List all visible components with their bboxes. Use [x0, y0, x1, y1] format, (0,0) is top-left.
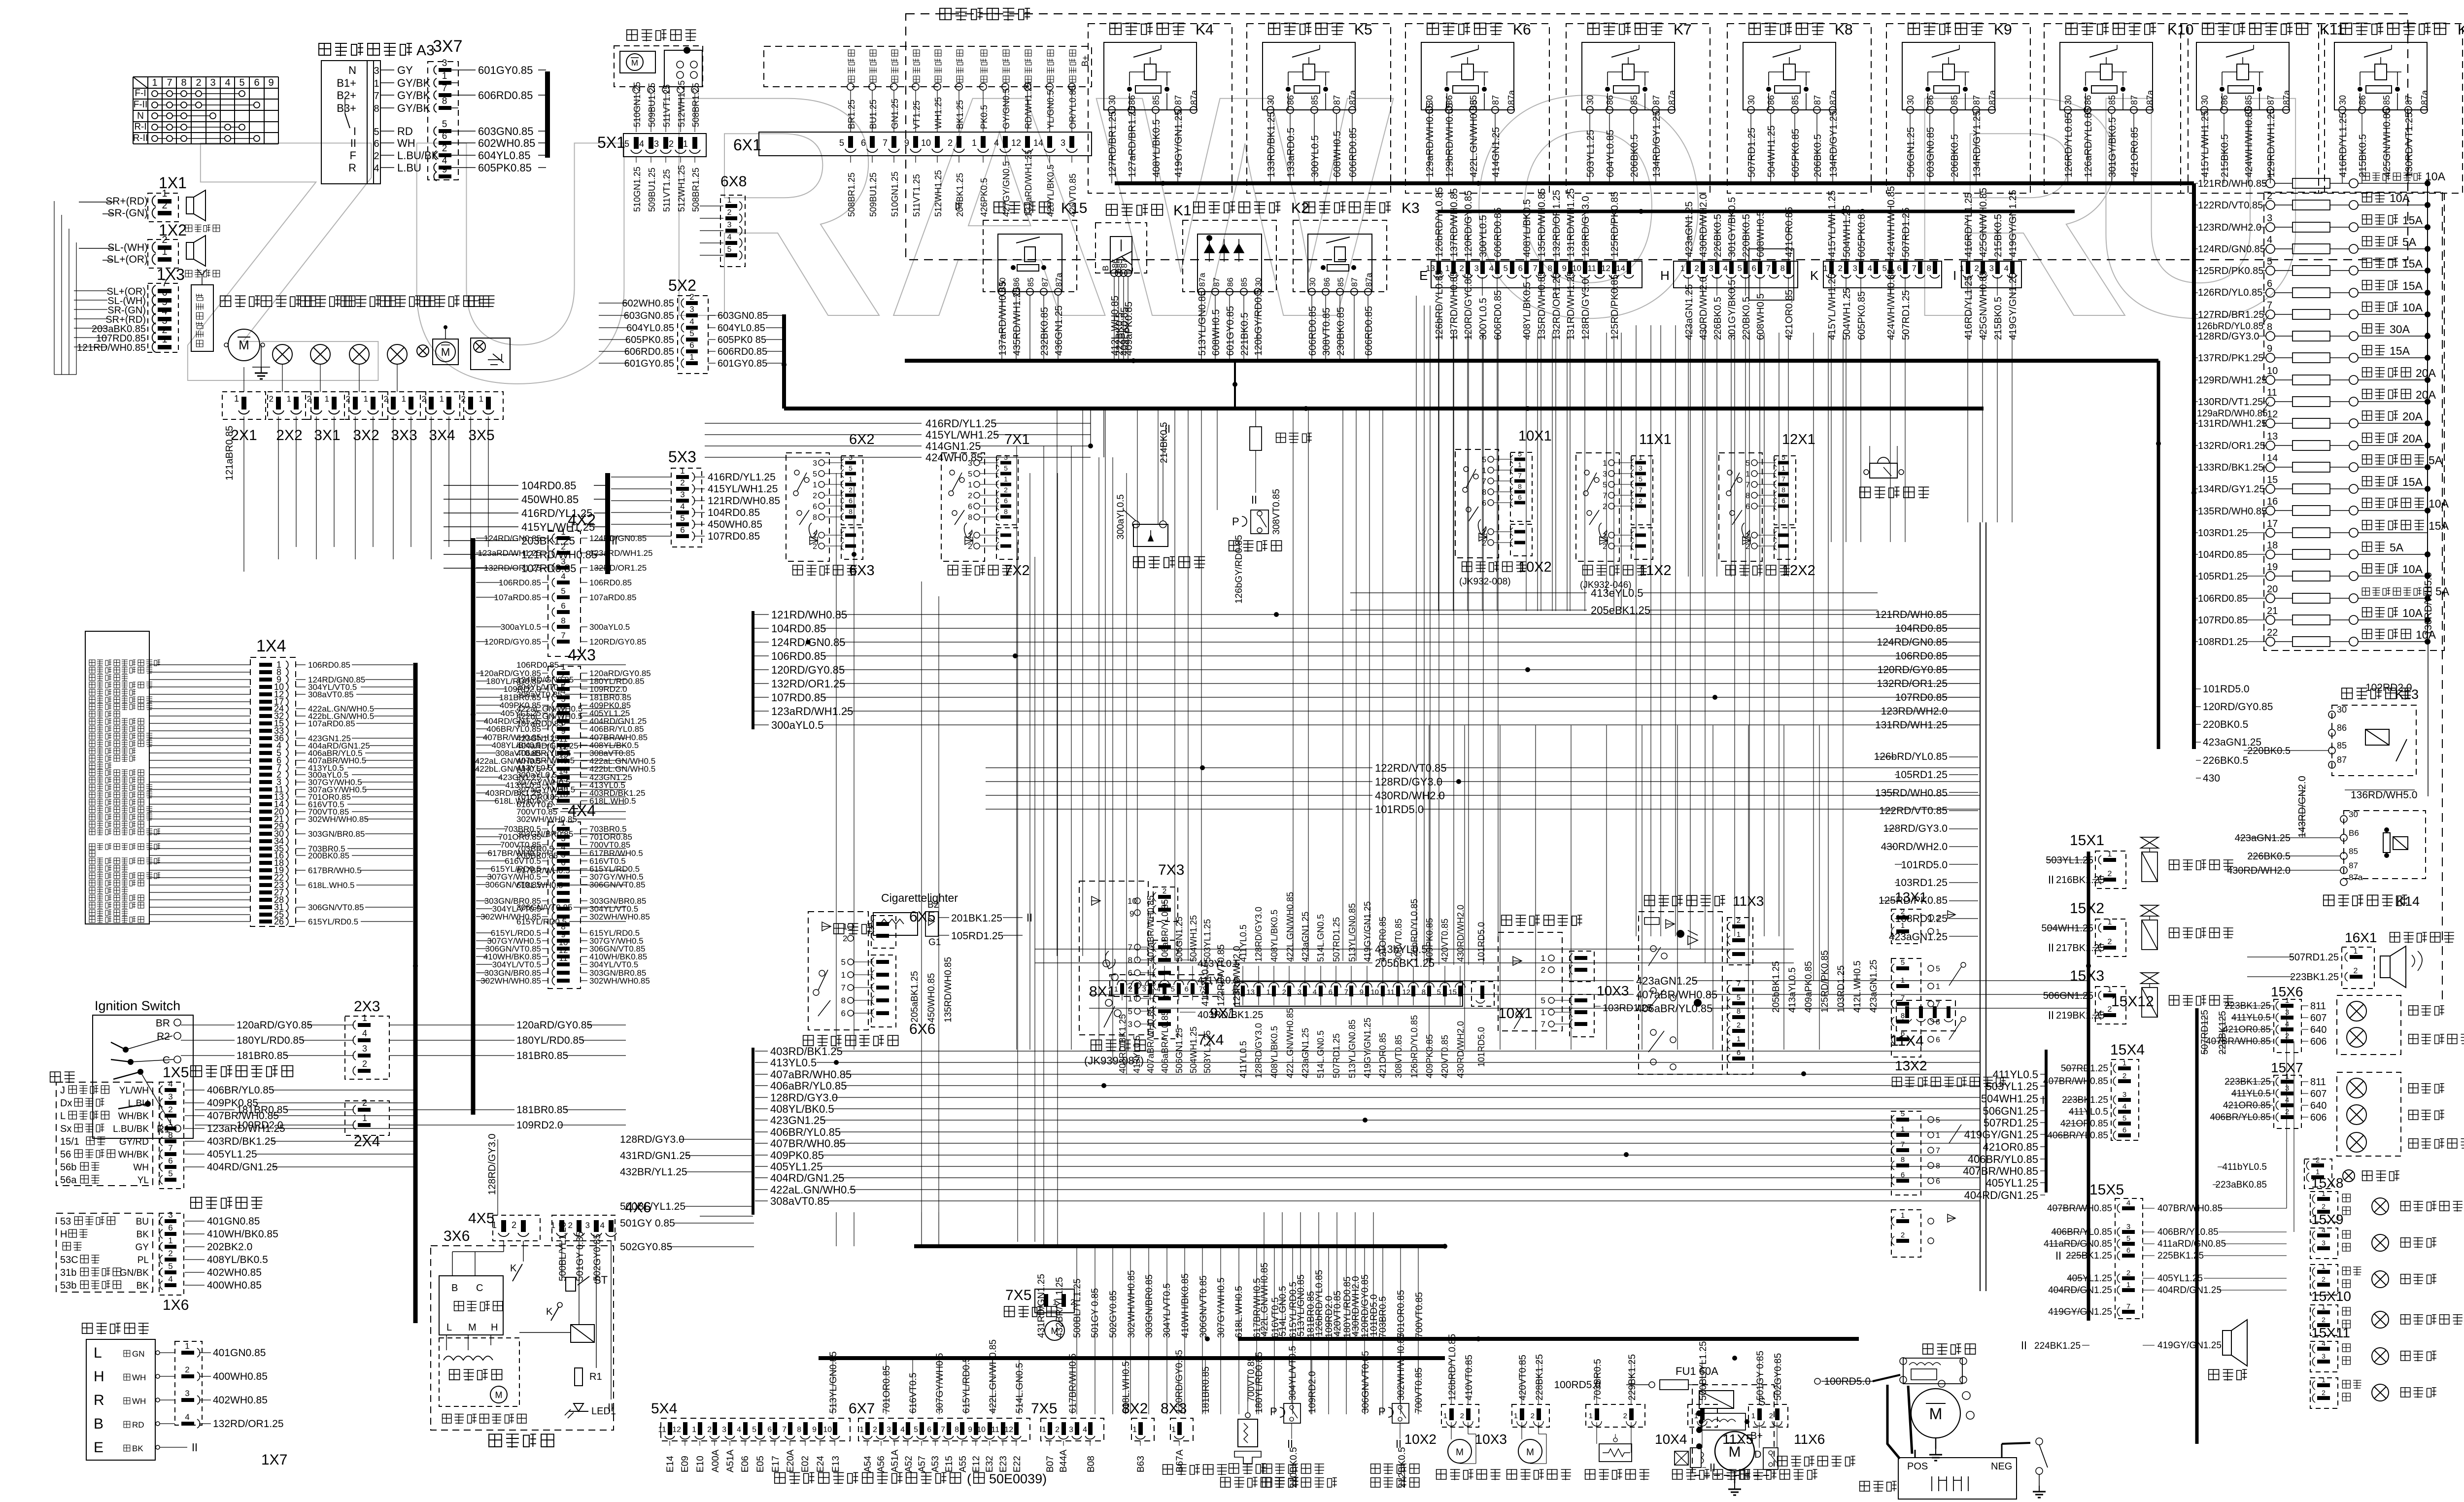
- svg-text:409aPK0.85: 409aPK0.85: [1804, 961, 1814, 1013]
- svg-text:405YL1.25: 405YL1.25: [2157, 1273, 2203, 1284]
- svg-text:3: 3: [680, 490, 684, 499]
- svg-text:K15: K15: [1061, 200, 1087, 216]
- svg-text:618L.WH0.5: 618L.WH0.5: [495, 796, 542, 806]
- svg-text:6X8: 6X8: [720, 173, 747, 190]
- svg-text:6: 6: [1518, 264, 1523, 273]
- svg-text:513YL/GN0.85: 513YL/GN0.85: [1347, 1020, 1357, 1078]
- svg-text:2: 2: [2354, 967, 2358, 975]
- svg-text:3: 3: [1853, 264, 1857, 273]
- power cutoff PD: [1229, 489, 1282, 614]
- svg-text:2: 2: [1838, 264, 1843, 273]
- svg-text:1X5: 1X5: [163, 1064, 189, 1081]
- svg-text:SL+(OR): SL+(OR): [107, 254, 148, 265]
- right handle switch 1X5: [56, 1064, 415, 1189]
- svg-text:R1: R1: [589, 1371, 602, 1382]
- rear wiper motor block: [614, 30, 703, 132]
- svg-text:J: J: [60, 1085, 65, 1096]
- selector A3 box: [319, 42, 458, 184]
- svg-text:6: 6: [254, 77, 259, 88]
- svg-text:7: 7: [941, 1426, 945, 1434]
- svg-text:8: 8: [1548, 264, 1552, 273]
- connector 2X4: [195, 1098, 626, 1150]
- svg-text:6: 6: [2126, 1246, 2130, 1255]
- svg-text:2: 2: [707, 1426, 712, 1434]
- svg-text:RD: RD: [397, 125, 413, 137]
- svg-text:5: 5: [624, 139, 629, 149]
- svg-text:106RD0.85: 106RD0.85: [589, 578, 632, 587]
- svg-text:P: P: [1270, 1405, 1277, 1418]
- svg-text:120RD/GY0.85: 120RD/GY0.85: [2203, 701, 2273, 713]
- svg-text:5A: 5A: [2390, 541, 2404, 554]
- svg-text:M: M: [468, 1322, 477, 1333]
- svg-text:133RD/BK1.25: 133RD/BK1.25: [2198, 462, 2263, 473]
- svg-text:3: 3: [1128, 1020, 1132, 1029]
- svg-text:15X11: 15X11: [2311, 1325, 2350, 1340]
- svg-text:9: 9: [442, 165, 447, 175]
- svg-text:1: 1: [162, 246, 167, 257]
- connector row 6X7: [849, 1400, 1030, 1472]
- svg-text:421OR0.85: 421OR0.85: [1784, 207, 1795, 257]
- bus bar 3X7 right: [545, 71, 550, 158]
- svg-text:12: 12: [1402, 988, 1410, 996]
- svg-text:306GN/VT0.85: 306GN/VT0.85: [589, 880, 645, 889]
- svg-text:101RD5.0: 101RD5.0: [1901, 859, 1948, 871]
- svg-text:II: II: [350, 137, 356, 149]
- svg-text:30: 30: [2349, 810, 2358, 819]
- connector row I: [1953, 188, 2021, 340]
- svg-text:700VT0.85: 700VT0.85: [1246, 1356, 1257, 1402]
- svg-text:Ignition Switch: Ignition Switch: [95, 998, 180, 1013]
- svg-text:514L.GN0.5: 514L.GN0.5: [1316, 914, 1326, 962]
- svg-text:10X3: 10X3: [1475, 1432, 1507, 1447]
- svg-text:135RD/WH0.85: 135RD/WH0.85: [1875, 787, 1948, 799]
- svg-text:513YL/GN0.85: 513YL/GN0.85: [1197, 291, 1208, 356]
- fuse FU1: [1554, 1365, 1718, 1391]
- svg-text:1: 1: [168, 1118, 172, 1127]
- svg-text:10: 10: [559, 790, 568, 799]
- svg-text:3: 3: [168, 1210, 172, 1220]
- svg-text:308aVT0.85: 308aVT0.85: [770, 1195, 829, 1207]
- svg-text:507RD1.25: 507RD1.25: [1901, 290, 1912, 340]
- svg-text:408YL/BK0.5: 408YL/BK0.5: [1522, 282, 1533, 340]
- svg-text:507RD1.25: 507RD1.25: [1901, 207, 1912, 257]
- svg-text:422L.GN/WH0.85: 422L.GN/WH0.85: [988, 1339, 998, 1413]
- gearbox pressure switch: [1371, 1333, 1419, 1488]
- svg-text:106RD0.85: 106RD0.85: [771, 650, 826, 662]
- svg-text:4: 4: [362, 1028, 367, 1038]
- svg-text:2: 2: [1769, 1412, 1773, 1420]
- connector row H: [1660, 194, 1798, 340]
- svg-text:10: 10: [823, 1426, 832, 1434]
- svg-text:432BR/YL1.25: 432BR/YL1.25: [1055, 1277, 1065, 1338]
- svg-text:123aRD/WH1.25: 123aRD/WH1.25: [771, 705, 853, 717]
- svg-text:430RD/WH2.0: 430RD/WH2.0: [1456, 905, 1466, 962]
- svg-text:4: 4: [639, 139, 644, 149]
- center vertical wires band 1: [1017, 306, 1843, 1246]
- svg-text:87: 87: [1813, 95, 1822, 105]
- bus C: [905, 359, 2158, 363]
- svg-text:8: 8: [1128, 956, 1132, 965]
- svg-text:6: 6: [813, 503, 817, 511]
- svg-text:405YL1.25: 405YL1.25: [1986, 1177, 2038, 1189]
- svg-text:215BK0.5: 215BK0.5: [1993, 297, 2004, 340]
- svg-text:200BK0.85: 200BK0.85: [308, 851, 349, 860]
- switch cluster 7X1/7X2: [941, 432, 1030, 579]
- svg-text:407aBR/WH0.85: 407aBR/WH0.85: [1636, 989, 1717, 1001]
- svg-text:3: 3: [2126, 1223, 2130, 1231]
- svg-text:604YL0.85: 604YL0.85: [626, 323, 674, 334]
- svg-text:408YL/BK0.5: 408YL/BK0.5: [770, 1103, 834, 1115]
- svg-text:6: 6: [1004, 497, 1008, 505]
- svg-text:BK: BK: [132, 1444, 143, 1453]
- svg-text:414GN1.25: 414GN1.25: [1491, 127, 1502, 177]
- svg-text:300aYL0.5: 300aYL0.5: [1116, 494, 1126, 540]
- svg-text:15X12: 15X12: [2111, 993, 2154, 1010]
- svg-text:L: L: [94, 1345, 102, 1361]
- svg-text:2: 2: [568, 1221, 573, 1230]
- svg-text:8: 8: [797, 1426, 801, 1434]
- svg-text:127RD/BR1.25: 127RD/BR1.25: [2198, 309, 2264, 320]
- svg-text:3: 3: [1061, 138, 1065, 148]
- svg-text:4: 4: [2267, 235, 2272, 245]
- svg-text:128RD/GY3.0: 128RD/GY3.0: [1580, 196, 1591, 257]
- connector 1X2 speaker left: [79, 221, 220, 277]
- svg-text:13: 13: [559, 750, 568, 759]
- svg-text:1: 1: [680, 466, 684, 476]
- svg-text:1: 1: [1114, 985, 1118, 993]
- svg-text:14: 14: [1616, 264, 1625, 273]
- svg-text:107RD0.85: 107RD0.85: [708, 531, 760, 542]
- svg-text:GY/GN0.5: GY/GN0.5: [1001, 88, 1011, 129]
- connector row K: [1810, 186, 1942, 341]
- svg-text:423aGN1.25: 423aGN1.25: [1684, 284, 1695, 340]
- svg-text:206BK0.5: 206BK0.5: [1629, 134, 1640, 177]
- svg-text:101RD5.0: 101RD5.0: [1476, 1027, 1486, 1067]
- svg-text:1: 1: [287, 394, 291, 404]
- svg-text:1: 1: [185, 1341, 189, 1351]
- svg-text:3: 3: [561, 557, 565, 566]
- svg-text:100RD5.0: 100RD5.0: [1554, 1379, 1601, 1391]
- svg-text:604YL0.85: 604YL0.85: [718, 323, 765, 334]
- svg-text:86: 86: [1925, 95, 1935, 105]
- svg-text:GN1.25: GN1.25: [890, 99, 900, 129]
- svg-text:8: 8: [1901, 1156, 1905, 1164]
- svg-text:7X5: 7X5: [1031, 1400, 1057, 1417]
- svg-text:601GY0.85: 601GY0.85: [624, 358, 674, 369]
- corridor A main: [753, 609, 1980, 731]
- svg-text:87: 87: [1173, 95, 1183, 105]
- svg-text:121RD/WH0.85: 121RD/WH0.85: [708, 495, 780, 507]
- 1X4 left label box: [85, 631, 160, 924]
- svg-text:5X3: 5X3: [668, 448, 696, 466]
- outer dashed frame relay bank: [906, 14, 2408, 260]
- svg-text:53: 53: [60, 1216, 71, 1227]
- verticals corridor A to D right side: [836, 725, 1819, 1246]
- svg-text:103RD1.25: 103RD1.25: [2198, 528, 2248, 539]
- svg-text:1: 1: [1514, 1412, 1518, 1420]
- svg-text:1: 1: [234, 394, 239, 404]
- svg-text:107aRD0.85: 107aRD0.85: [589, 593, 636, 602]
- svg-text:300aYL0.5: 300aYL0.5: [771, 719, 823, 731]
- svg-text:106RD0.85: 106RD0.85: [308, 660, 350, 670]
- svg-text:128RD/GY3.0: 128RD/GY3.0: [1580, 278, 1591, 340]
- svg-text:216BK1.25: 216BK1.25: [2056, 875, 2105, 886]
- svg-text:130RD/VT1.25: 130RD/VT1.25: [2404, 112, 2415, 177]
- svg-text:K1: K1: [1173, 203, 1192, 219]
- svg-text:407BR/WH0.85: 407BR/WH0.85: [1963, 1165, 2038, 1177]
- svg-text:2: 2: [1541, 965, 1545, 975]
- svg-text:605PK0.85: 605PK0.85: [478, 162, 532, 174]
- svg-text:101RD5.0: 101RD5.0: [1476, 922, 1486, 962]
- svg-text:109RD2.0: 109RD2.0: [1307, 1371, 1318, 1413]
- battery: [1860, 1438, 2048, 1499]
- switch cluster 10X1/10X2: [1455, 428, 1552, 587]
- svg-text:130RD/VT1.25: 130RD/VT1.25: [2198, 397, 2263, 408]
- svg-text:R2: R2: [157, 1031, 170, 1042]
- svg-text:2: 2: [1737, 917, 1741, 925]
- svg-text:9: 9: [268, 77, 274, 88]
- svg-text:3: 3: [362, 1044, 367, 1054]
- svg-text:416RD/YL1.25: 416RD/YL1.25: [2338, 113, 2349, 177]
- svg-text:C: C: [476, 1283, 483, 1294]
- svg-text:223BK1.25: 223BK1.25: [2290, 972, 2339, 983]
- fuse right bus: [2427, 183, 2428, 642]
- svg-text:5X1: 5X1: [597, 134, 625, 151]
- svg-text:26: 26: [274, 917, 284, 926]
- solenoid valves 15X1-15X3: [2041, 832, 2233, 1321]
- svg-text:8: 8: [955, 1426, 959, 1434]
- svg-text:421OR0.85: 421OR0.85: [1983, 1141, 2038, 1153]
- svg-text:424WH/WH0.85: 424WH/WH0.85: [1886, 186, 1897, 258]
- svg-text:132RD/OR1.25: 132RD/OR1.25: [213, 1418, 284, 1430]
- svg-text:6: 6: [689, 341, 694, 350]
- corridor C: [1035, 587, 2088, 1015]
- svg-text:701OR0.85: 701OR0.85: [882, 1365, 892, 1413]
- svg-text:128RD/GY3.0: 128RD/GY3.0: [1375, 776, 1442, 788]
- svg-text:4: 4: [737, 1426, 741, 1434]
- svg-text:87: 87: [1972, 95, 1982, 105]
- wires 1X5-1X7 up to trunk: [0, 0, 0, 0]
- bus B E-row feed: [1437, 210, 2075, 213]
- svg-text:K9: K9: [1994, 22, 2012, 38]
- svg-text:7: 7: [167, 77, 172, 88]
- svg-text:85: 85: [1151, 95, 1161, 105]
- svg-text:14: 14: [1231, 988, 1239, 996]
- svg-text:419GY/GN1.25: 419GY/GN1.25: [1964, 1128, 2038, 1141]
- steering wheel switch 1X6: [56, 1197, 278, 1313]
- svg-text:1: 1: [551, 1221, 555, 1230]
- svg-text:10: 10: [1128, 896, 1137, 906]
- svg-text:6: 6: [374, 138, 379, 149]
- bracket bold corridor A: [752, 611, 754, 729]
- svg-text:105RD1.25: 105RD1.25: [1895, 769, 1948, 781]
- svg-text:406BR/YL0.85: 406BR/YL0.85: [770, 1126, 841, 1138]
- svg-text:A00A: A00A: [711, 1449, 721, 1472]
- svg-text:129RD/WH1.25: 129RD/WH1.25: [2266, 108, 2277, 177]
- svg-text:1: 1: [402, 394, 406, 404]
- svg-text:408YL/BK0.5: 408YL/BK0.5: [207, 1254, 268, 1265]
- svg-text:226BK0.5: 226BK0.5: [1712, 297, 1723, 340]
- svg-text:1: 1: [1737, 930, 1741, 939]
- svg-text:407aBR/WH0.85: 407aBR/WH0.85: [1146, 895, 1156, 962]
- svg-text:6: 6: [1936, 1177, 1940, 1186]
- svg-text:121RD/WH0.85: 121RD/WH0.85: [771, 609, 847, 621]
- svg-text:408YL/BK0.5: 408YL/BK0.5: [1269, 910, 1279, 962]
- svg-text:BR1.25: BR1.25: [847, 100, 856, 129]
- svg-text:125RD/PK0.85: 125RD/PK0.85: [2198, 266, 2263, 276]
- svg-text:128RD/GY3.0: 128RD/GY3.0: [770, 1092, 838, 1104]
- svg-text:603GN0.85: 603GN0.85: [1925, 127, 1936, 177]
- svg-text:126bRD/YL0.85: 126bRD/YL0.85: [1409, 1015, 1419, 1078]
- svg-text:404RD/GN1.25: 404RD/GN1.25: [2157, 1285, 2222, 1296]
- svg-text:87: 87: [2349, 861, 2358, 870]
- svg-text:1: 1: [2285, 996, 2289, 1005]
- svg-text:M: M: [239, 338, 249, 352]
- svg-text:700VT0.85: 700VT0.85: [1414, 1367, 1424, 1413]
- bus E fresh-air: [914, 1244, 1445, 1248]
- svg-text:1: 1: [1589, 1412, 1593, 1420]
- svg-text:E22: E22: [1012, 1456, 1023, 1472]
- svg-text:430RD/WH2.0: 430RD/WH2.0: [1351, 1276, 1361, 1337]
- svg-text:5: 5: [1004, 464, 1008, 472]
- svg-text:2: 2: [374, 151, 379, 162]
- svg-text:10: 10: [1572, 264, 1581, 273]
- svg-text:410VT0.85: 410VT0.85: [1464, 1355, 1474, 1400]
- svg-text:7: 7: [1639, 486, 1643, 494]
- svg-text:411YL0.5: 411YL0.5: [1238, 1041, 1248, 1078]
- svg-text:420VT0.85: 420VT0.85: [1518, 1355, 1528, 1400]
- svg-text:134RD/GY1.25: 134RD/GY1.25: [2198, 484, 2265, 495]
- svg-text:L.BU/BK: L.BU/BK: [113, 1124, 149, 1134]
- rotating beacon: [417, 325, 458, 365]
- svg-text:15: 15: [1448, 988, 1457, 996]
- svg-text:M: M: [1929, 1405, 1943, 1423]
- svg-text:WH: WH: [397, 137, 415, 149]
- svg-text:502GY0.85: 502GY0.85: [1773, 1353, 1783, 1400]
- svg-text:2: 2: [2322, 1389, 2326, 1397]
- connector 15X7 lamps: [2210, 1060, 2464, 1156]
- svg-text:104RD0.85: 104RD0.85: [521, 479, 576, 492]
- svg-text:419GY/GN1.25: 419GY/GN1.25: [1173, 110, 1184, 177]
- svg-text:56b: 56b: [60, 1162, 76, 1173]
- svg-text:GN/BK: GN/BK: [120, 1268, 149, 1278]
- svg-text:134RD/GY1.25: 134RD/GY1.25: [1972, 110, 1983, 177]
- svg-text:E02: E02: [800, 1456, 811, 1472]
- svg-text:618L.WH0.5: 618L.WH0.5: [589, 796, 636, 806]
- svg-text:2: 2: [561, 542, 565, 551]
- svg-text:10: 10: [1370, 988, 1379, 996]
- svg-text:4: 4: [168, 1079, 172, 1089]
- svg-text:217BK1.25: 217BK1.25: [2056, 943, 2105, 954]
- svg-text:87: 87: [1212, 277, 1221, 287]
- svg-text:308VT0.85: 308VT0.85: [1394, 1035, 1403, 1078]
- connector 13X1 13X2: [1891, 889, 2006, 1088]
- relay K1: [1095, 203, 1192, 361]
- svg-text:126bGY/RD0.85: 126bGY/RD0.85: [1234, 535, 1244, 604]
- svg-text:85: 85: [2337, 741, 2347, 751]
- corridor D right labels 11X4: [1890, 1000, 2046, 1201]
- connector 10X1 single: [1472, 982, 1494, 1006]
- svg-text:3: 3: [1142, 985, 1146, 993]
- svg-text:7: 7: [1199, 985, 1203, 993]
- svg-text:2: 2: [346, 394, 350, 404]
- svg-text:21: 21: [2267, 606, 2278, 616]
- center vertical wires band 2 down to bus G: [1260, 1212, 1379, 1339]
- svg-text:504WH1.25: 504WH1.25: [1189, 915, 1198, 962]
- svg-text:501GY 0.85: 501GY 0.85: [620, 1218, 675, 1229]
- svg-text:6X5: 6X5: [909, 909, 935, 925]
- front washer motor 10X2: [1404, 1334, 1501, 1480]
- svg-text:30: 30: [2200, 95, 2210, 105]
- svg-text:511VT1.25: 511VT1.25: [662, 84, 672, 127]
- svg-text:14: 14: [1033, 138, 1043, 148]
- svg-text:K2: K2: [1291, 200, 1309, 216]
- svg-text:3: 3: [727, 221, 732, 229]
- connector 6X1: [733, 132, 1092, 217]
- svg-text:GY/RD: GY/RD: [119, 1137, 149, 1147]
- svg-text:11: 11: [1587, 264, 1596, 273]
- svg-text:4: 4: [1313, 988, 1317, 996]
- svg-text:126bRD/YL0.85: 126bRD/YL0.85: [1434, 187, 1445, 257]
- svg-text:416RD/YL1.25: 416RD/YL1.25: [1963, 275, 1974, 340]
- svg-text:2: 2: [384, 394, 388, 404]
- main lamp switch 7X3 7X4: [1079, 862, 1263, 1067]
- svg-text:221BK0.5: 221BK0.5: [1239, 312, 1250, 356]
- svg-text:53C: 53C: [60, 1255, 78, 1265]
- svg-text:423GN1.25: 423GN1.25: [770, 1114, 826, 1126]
- svg-text:86: 86: [1127, 95, 1137, 105]
- svg-text:20A: 20A: [2402, 410, 2423, 423]
- svg-text:603GN0.85: 603GN0.85: [718, 310, 768, 321]
- svg-text:2: 2: [968, 543, 972, 551]
- svg-text:5X4: 5X4: [651, 1400, 677, 1417]
- svg-text:617BR/WH0.5: 617BR/WH0.5: [1068, 1354, 1078, 1413]
- 136RD WH5 line: [2428, 642, 2429, 796]
- svg-text:300YL0.5: 300YL0.5: [1310, 135, 1321, 177]
- svg-text:85: 85: [1629, 95, 1639, 105]
- svg-text:214BK0.5: 214BK0.5: [1159, 422, 1169, 463]
- svg-text:1X4: 1X4: [256, 637, 286, 655]
- svg-text:B07: B07: [1045, 1456, 1056, 1472]
- svg-text:301GY/BK0.5: 301GY/BK0.5: [1727, 280, 1738, 340]
- svg-text:502GY0.85: 502GY0.85: [1108, 1291, 1119, 1338]
- svg-text:11: 11: [658, 1426, 666, 1434]
- svg-text:123RD/WH2.0: 123RD/WH2.0: [2198, 222, 2261, 233]
- svg-text:137RD/PK1.25: 137RD/PK1.25: [2198, 353, 2263, 364]
- svg-text:421OR0.85: 421OR0.85: [1378, 1033, 1388, 1078]
- svg-text:416RD/YL1.25: 416RD/YL1.25: [1963, 193, 1974, 257]
- gear selector table: [133, 77, 278, 144]
- svg-text:R: R: [348, 162, 356, 174]
- relay K10: [2044, 22, 2193, 193]
- work lamp 1: [273, 344, 292, 364]
- connector 1X3 radio: [74, 266, 213, 353]
- svg-text:4: 4: [689, 317, 694, 326]
- svg-text:510GN1.25: 510GN1.25: [632, 82, 642, 127]
- svg-text:A56: A56: [876, 1456, 887, 1472]
- svg-text:86: 86: [2220, 95, 2229, 105]
- svg-text:220BK0.5: 220BK0.5: [1741, 297, 1752, 340]
- svg-text:6: 6: [968, 503, 972, 511]
- svg-text:GY/BK: GY/BK: [397, 77, 431, 89]
- svg-text:5: 5: [689, 329, 694, 338]
- svg-text:85: 85: [1310, 95, 1320, 105]
- svg-text:107RD0.85: 107RD0.85: [771, 691, 826, 704]
- svg-text:511VT1.25: 511VT1.25: [912, 174, 922, 217]
- svg-text:5: 5: [1901, 958, 1905, 967]
- fuel level sensor 10X4: [1585, 1354, 1687, 1480]
- svg-text:3: 3: [887, 1426, 891, 1434]
